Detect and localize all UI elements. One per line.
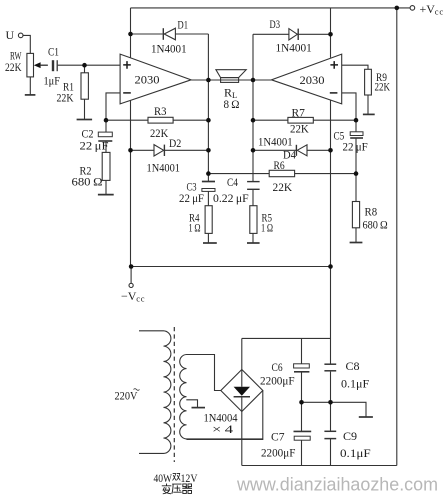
wire C1 to node A and op-amp U1 + input	[58, 64, 121, 66]
svg-text:+V: +V	[420, 2, 436, 16]
potentiometer RW wiper arrow	[34, 62, 48, 68]
svg-text:C9: C9	[343, 429, 357, 443]
junction R3 right on output 1	[206, 118, 211, 123]
svg-text:R3: R3	[154, 104, 167, 118]
svg-text:1μF: 1μF	[44, 73, 61, 87]
glyph qi	[182, 484, 192, 493]
resistor R2	[102, 152, 110, 180]
ground below R9	[363, 113, 375, 115]
junction D3 cathode	[328, 32, 333, 37]
svg-text:C8: C8	[346, 359, 360, 373]
wire C4 to R5 to ground	[252, 190, 254, 243]
capacitor C6	[294, 364, 310, 372]
wire speaker row between outputs	[191, 79, 271, 81]
wire PSU top rail	[242, 337, 331, 339]
wire D3 row	[253, 33, 331, 35]
ground below R1	[77, 119, 93, 121]
capacitor C8	[324, 364, 336, 371]
resistor R9	[365, 69, 372, 95]
wire secondary bottom to bridge right corner	[187, 391, 263, 440]
wire C6 column	[301, 338, 303, 402]
wire input terminal to potentiometer RW	[23, 35, 30, 53]
glyph bian	[162, 484, 172, 494]
svg-text:−V: −V	[121, 289, 137, 303]
transformer T1 primary winding	[139, 331, 171, 454]
svg-text:22K: 22K	[273, 180, 293, 194]
svg-text:2030: 2030	[300, 73, 325, 87]
wire -Vs pin op-amp U1 down to -Vcc rail	[130, 100, 132, 267]
svg-text:C4: C4	[227, 175, 238, 189]
svg-text:D1: D1	[178, 18, 189, 32]
resistor R5	[250, 206, 257, 234]
ground below R8	[350, 242, 363, 244]
op-amp U1 triangle	[120, 54, 191, 104]
junction D4 left on output 2	[251, 148, 256, 153]
diode D1 cathode bar	[162, 28, 164, 40]
capacitor C4	[247, 182, 260, 190]
glyph ya	[172, 484, 182, 494]
svg-text:0.1μF: 0.1μF	[340, 446, 371, 460]
svg-text:1 Ω: 1 Ω	[261, 220, 273, 234]
resistor R8	[352, 202, 359, 228]
junction node C on output 1	[206, 171, 211, 176]
ground at transformer center tap	[192, 407, 206, 409]
svg-text:R6: R6	[274, 158, 285, 172]
svg-text:22K: 22K	[150, 126, 168, 140]
resistor R7	[288, 117, 313, 123]
wire +Vs pin op-amp U2	[330, 8, 332, 58]
bridge rectifier body	[221, 370, 263, 412]
junction mid rail C6	[299, 400, 304, 405]
wire secondary top to bridge left corner	[187, 355, 221, 391]
junction +Vcc top	[395, 6, 400, 11]
svg-text:12V: 12V	[181, 471, 198, 485]
svg-text:22K: 22K	[57, 90, 74, 104]
junction R6 right node D	[354, 171, 359, 176]
ground below R4	[203, 242, 217, 244]
svg-text:22 μF: 22 μF	[80, 138, 109, 152]
svg-text:C6: C6	[272, 360, 283, 374]
svg-text:1N4001: 1N4001	[258, 134, 293, 148]
svg-text:2030: 2030	[135, 73, 160, 87]
svg-text:0.22 μF: 0.22 μF	[213, 191, 249, 205]
wire -Vcc terminal stub	[130, 267, 132, 284]
capacitor C5	[350, 132, 363, 138]
diode D3 cathode bar	[297, 29, 299, 40]
transformer T1 secondary winding	[180, 355, 263, 439]
svg-text:680 Ω: 680 Ω	[72, 175, 103, 189]
junction -Vcc rail right	[328, 264, 333, 269]
wire R3 feedback row	[106, 119, 208, 121]
wire D2 row	[131, 149, 209, 151]
capacitor C9	[324, 431, 336, 438]
svg-text:R7: R7	[292, 106, 305, 120]
svg-text:1 Ω: 1 Ω	[189, 220, 201, 234]
svg-text:680 Ω: 680 Ω	[363, 218, 388, 232]
diode D4 cathode bar	[295, 145, 297, 156]
svg-text:1N4001: 1N4001	[276, 40, 312, 54]
svg-text:22K: 22K	[375, 80, 391, 94]
terminal +Vcc	[410, 6, 415, 11]
diode D2 cathode bar	[163, 145, 165, 156]
junction D2 left	[128, 148, 133, 153]
junction speaker right	[251, 78, 256, 83]
transformer T1 core	[173, 327, 175, 462]
svg-text:22 μF: 22 μF	[343, 139, 368, 153]
wire bridge bottom corner to bottom rail	[241, 412, 243, 466]
potentiometer RW body	[27, 53, 34, 77]
junction node B at R3 left	[104, 118, 109, 123]
svg-text:U: U	[6, 28, 15, 42]
wire +Vs pin op-amp U1	[130, 8, 132, 58]
terminal -Vcc	[129, 283, 133, 287]
wire C3 to R4 to ground	[207, 191, 209, 243]
junction speaker left	[206, 78, 211, 83]
svg-text:22K: 22K	[5, 60, 22, 74]
wire secondary center tap to ground	[186, 400, 197, 408]
glyph shuang	[173, 473, 181, 480]
wire -Vs pin op-amp U2 down through rails to C8	[330, 100, 332, 364]
svg-text:R8: R8	[365, 205, 378, 219]
wire output column op-amp U2	[252, 34, 254, 181]
wire op-amp U1 - input down to node B	[106, 93, 120, 132]
wire top +Vcc rail	[131, 7, 411, 9]
wire RW bottom lead	[29, 77, 31, 95]
svg-text:D2: D2	[169, 136, 181, 150]
wire op-amp U2 - input down to C5	[342, 93, 356, 132]
op-amp U2 triangle	[271, 54, 341, 104]
wire R8 to ground	[355, 228, 357, 242]
junction D4 right	[328, 148, 333, 153]
svg-text:D3: D3	[270, 17, 281, 31]
capacitor C2	[98, 132, 112, 141]
svg-text:22K: 22K	[290, 121, 309, 135]
junction mid rail C8	[328, 400, 333, 405]
svg-text:www.dianziaihaozhe.com: www.dianziaihaozhe.com	[236, 474, 438, 495]
diode D1 triangle	[164, 28, 175, 40]
svg-text:22 μF: 22 μF	[179, 191, 204, 205]
ground at PSU mid rail	[359, 416, 373, 418]
ground below R2	[98, 194, 114, 196]
diode D4 triangle	[297, 145, 307, 156]
wire C2 to R2 and R2 to ground	[105, 141, 107, 195]
svg-text:× 4: × 4	[212, 422, 233, 436]
label 220V tilde accent	[134, 389, 140, 391]
wire R7 row	[253, 119, 356, 121]
wire bridge top corner to rail	[241, 338, 243, 369]
wire C9 column	[330, 402, 332, 465]
svg-text:C1: C1	[48, 45, 59, 59]
junction R7 left on output 2	[251, 118, 256, 123]
bridge rectifier internal diode 1N4004	[234, 370, 250, 412]
wire D4 row	[253, 149, 331, 151]
svg-text:8 Ω: 8 Ω	[224, 97, 240, 111]
speaker RL cone	[216, 70, 246, 78]
wire wiper to C1	[39, 64, 48, 66]
svg-text:D4: D4	[283, 148, 296, 162]
resistor R3	[148, 117, 173, 123]
wire op-amp U2 + input to R9	[342, 65, 368, 69]
diode D2 triangle	[154, 145, 164, 156]
op-amp U1 input polarity marks	[123, 61, 131, 93]
junction R7 right	[354, 118, 359, 123]
capacitor C1	[53, 60, 57, 71]
ground below RW	[25, 94, 36, 96]
wire node C row to R6	[208, 173, 356, 175]
svg-text:cc: cc	[435, 6, 444, 16]
svg-text:C7: C7	[271, 429, 285, 443]
ground below R5	[247, 242, 260, 244]
wire C5 bottom to R8	[355, 138, 357, 201]
junction dot D1 anode	[128, 32, 133, 37]
svg-text:1N4001: 1N4001	[147, 161, 181, 175]
resistor R4	[205, 206, 212, 234]
wire output column op-amp U1	[207, 34, 209, 181]
wire R9 to ground	[367, 95, 369, 114]
wire PSU bottom rail	[242, 465, 397, 467]
diode D3 triangle	[289, 29, 298, 40]
terminal input U	[18, 33, 23, 38]
wire mid rail to ground	[302, 402, 367, 416]
svg-text:cc: cc	[136, 294, 145, 304]
wire +Vcc right vertical down to bottom rail	[396, 8, 398, 466]
resistor R1	[81, 73, 88, 99]
speaker RL coil	[221, 78, 239, 83]
wire -Vcc rail	[131, 266, 330, 268]
junction D2 right on output 1	[206, 148, 211, 153]
junction -Vcc rail left	[129, 264, 134, 269]
wire C8 bottom to mid rail	[330, 372, 332, 403]
svg-text:2200μF: 2200μF	[260, 373, 295, 387]
svg-text:220V: 220V	[115, 389, 138, 403]
resistor R6	[269, 170, 294, 176]
svg-text:40W: 40W	[154, 471, 173, 485]
junction node A after C1	[82, 63, 87, 68]
wire C7 column	[301, 402, 303, 465]
wire R1 leads	[84, 65, 86, 119]
svg-text:2200μF: 2200μF	[261, 445, 296, 459]
svg-text:0.1μF: 0.1μF	[341, 377, 370, 391]
capacitor C7	[294, 431, 312, 440]
op-amp U2 input polarity marks	[330, 61, 338, 93]
wire D1 row	[131, 33, 209, 35]
capacitor C3	[202, 182, 215, 192]
svg-text:1N4001: 1N4001	[151, 42, 187, 56]
